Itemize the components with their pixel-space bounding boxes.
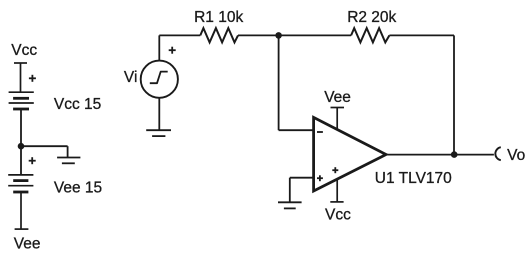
plus polarity marker (battery V1) <box>29 75 36 82</box>
plus marker (positive supply pin) <box>332 167 338 173</box>
wire (Vi top to R1) <box>159 35 200 60</box>
svg-text:Vi: Vi <box>124 69 138 86</box>
ground (non-inverting input) <box>278 202 302 208</box>
junction node (between batteries) <box>18 143 25 150</box>
ground (source Vi) <box>146 130 171 136</box>
svg-text:Vee: Vee <box>14 235 41 252</box>
wire (junction to battery V2 top) <box>20 146 22 175</box>
plus polarity marker (source Vi) <box>169 47 176 54</box>
wire (node down to inverting input) <box>279 35 314 130</box>
svg-text:U1 TLV170: U1 TLV170 <box>375 170 452 187</box>
svg-text:R2 20k: R2 20k <box>347 9 396 26</box>
wire (battery V1 bottom to junction) <box>20 109 22 146</box>
svg-text:R1 10k: R1 10k <box>194 9 243 26</box>
output node (junction dot) <box>451 151 458 158</box>
output port Vo (arc) <box>495 147 500 160</box>
plus polarity marker (battery V2) <box>29 157 36 164</box>
power terminal Vee (op-amp top pin) <box>331 108 345 130</box>
wire (R1 to node) <box>238 34 279 36</box>
minus marker (inverting input) <box>317 131 323 133</box>
svg-text:Vee 15: Vee 15 <box>54 179 102 196</box>
wire (R2 to output, right vertical) <box>389 35 454 154</box>
wire (junction to ground stub) <box>21 146 68 157</box>
svg-text:Vcc 15: Vcc 15 <box>54 96 101 113</box>
power terminal Vee (bottom T-bar) <box>15 192 29 229</box>
svg-text:Vcc: Vcc <box>325 206 351 223</box>
resistor R1 <box>200 28 238 42</box>
power terminal Vcc (T-bar) <box>14 63 27 92</box>
power terminal Vcc (op-amp bottom pin) <box>330 180 343 202</box>
ground (supply midpoint) <box>57 158 80 164</box>
wire (node to R2) <box>279 34 352 36</box>
battery V1 Vcc 15 <box>9 92 34 109</box>
svg-text:Vo: Vo <box>507 147 525 164</box>
svg-text:Vcc: Vcc <box>11 42 37 59</box>
wire (Vi bottom to ground) <box>158 98 160 130</box>
op-amp U1 (triangle) <box>314 117 386 191</box>
voltage source Vi (circle with waveform) <box>141 61 178 98</box>
node (inverting input net) <box>275 32 282 39</box>
wire (non-inverting input to ground) <box>290 178 314 203</box>
plus marker (non-inverting input) <box>317 175 323 181</box>
battery V2 Vee 15 <box>8 175 33 192</box>
svg-text:Vee: Vee <box>324 89 351 106</box>
resistor R2 <box>351 28 389 42</box>
wire (op-amp output) <box>386 154 494 156</box>
